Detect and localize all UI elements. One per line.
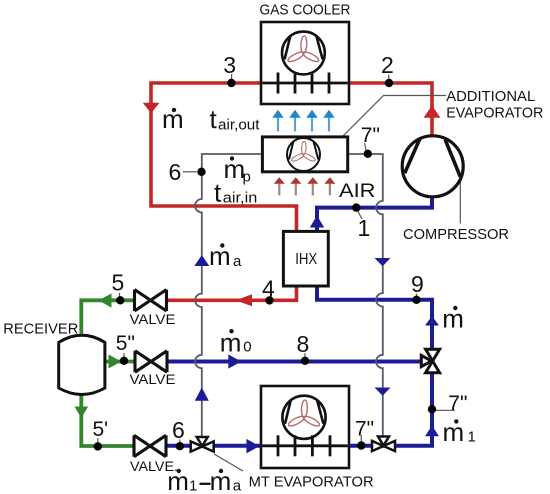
svg-text:m: m [209,241,231,271]
svg-text:5': 5' [93,418,109,441]
svg-text:AIR: AIR [339,181,376,202]
svg-text:4: 4 [262,276,275,302]
svg-text:7": 7" [361,124,380,147]
svg-text:COMPRESSOR: COMPRESSOR [403,226,509,243]
svg-text:air,in: air,in [223,190,257,206]
svg-text:5": 5" [116,332,135,355]
svg-text:EVAPORATOR: EVAPORATOR [446,104,543,121]
svg-text:5: 5 [112,270,125,296]
svg-text:m: m [443,417,465,447]
svg-text:t: t [210,104,218,134]
svg-text:VALVE: VALVE [130,311,176,327]
svg-text:7": 7" [448,392,467,415]
svg-text:air,out: air,out [218,117,260,133]
svg-text:8: 8 [297,331,310,357]
svg-text:1: 1 [468,428,476,445]
svg-text:0: 0 [243,338,251,355]
svg-text:IHX: IHX [295,251,317,268]
svg-text:p: p [243,168,251,185]
svg-text:1: 1 [358,215,371,241]
svg-text:ADDITIONAL: ADDITIONAL [446,88,535,105]
svg-text:GAS COOLER: GAS COOLER [260,1,351,18]
svg-text:1: 1 [189,478,197,494]
svg-text:2: 2 [381,52,394,78]
svg-text:a: a [233,253,242,270]
svg-text:RECEIVER: RECEIVER [3,320,78,337]
svg-text:MT EVAPORATOR: MT EVAPORATOR [249,474,374,491]
svg-text:6: 6 [172,417,185,443]
svg-text:9: 9 [411,271,424,297]
svg-text:t: t [214,177,222,207]
svg-text:6: 6 [169,159,182,185]
svg-text:m: m [442,304,464,334]
svg-text:VALVE: VALVE [130,371,176,387]
svg-text:a: a [233,478,242,494]
svg-text:3: 3 [223,52,236,78]
svg-text:7": 7" [355,418,374,441]
